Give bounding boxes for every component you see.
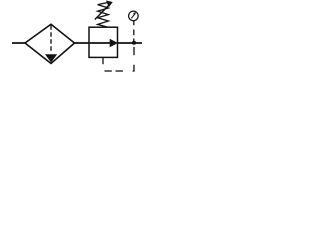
flow path line inside regulator [89, 42, 111, 44]
adjustment arrowhead [106, 1, 112, 7]
pilot feedback stub below regulator [102, 58, 104, 65]
gauge pilot dash 2 [133, 39, 135, 44]
pilot feedback corner dash [133, 65, 134, 71]
water separator drain triangle [46, 55, 57, 62]
pilot feedback dash c [133, 47, 135, 55]
gauge needle arrowhead [133, 12, 136, 15]
adjustment arrow shaft [95, 3, 111, 19]
node junction dot [132, 41, 136, 45]
adjustable spring (zigzag) [98, 2, 109, 27]
gauge pilot stub [133, 21, 135, 25]
wire outlet line [118, 42, 143, 44]
pilot feedback dash b [116, 70, 123, 72]
filter element (dashed vertical line) [50, 25, 52, 53]
gauge needle [131, 14, 134, 18]
filter F1 body (diamond) [25, 24, 75, 63]
gauge pilot dash [133, 30, 135, 36]
wire inlet line [12, 42, 26, 44]
pressure gauge G1 (circle) [129, 11, 139, 21]
regulator body (box) [89, 27, 118, 57]
wire filter to regulator [75, 42, 90, 44]
flow arrowhead [110, 39, 117, 46]
pilot feedback dash a [105, 70, 112, 72]
